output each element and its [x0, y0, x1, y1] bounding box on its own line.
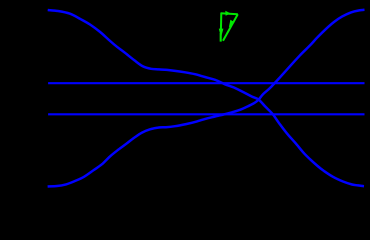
green annotation: left vertical stroke: [220, 13, 222, 31]
green annotation: diagonal stroke: [223, 14, 238, 40]
green annotation: down arrow stub: [220, 33, 222, 42]
upper horizontal line: [48, 82, 364, 84]
green annotation: top stroke: [221, 13, 238, 14]
descending curve: [48, 10, 364, 186]
lower horizontal line: [48, 113, 364, 115]
green annotation: diagonal arrowhead: [229, 20, 235, 28]
green annotation: down arrowhead: [219, 29, 224, 38]
ascending curve: [48, 10, 365, 187]
green annotation: right arrowhead: [225, 11, 230, 16]
